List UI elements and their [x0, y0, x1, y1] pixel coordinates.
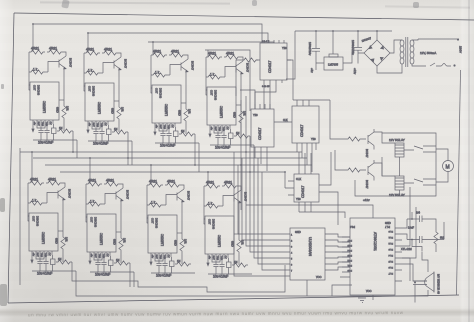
svg-text:CLK: CLK [296, 177, 301, 181]
svg-text:CD4017: CD4017 [268, 60, 272, 73]
resistor R pull U10 [242, 58, 258, 62]
svg-text:2: 2 [291, 241, 293, 243]
555 block T4 [206, 52, 254, 150]
bridge rectifier 1N4007 [358, 31, 399, 73]
mcu right risers [402, 187, 416, 258]
svg-text:4: 4 [291, 253, 293, 255]
555 block B1 [28, 178, 76, 276]
svg-text:Y10: Y10 [296, 197, 301, 201]
svg-text:MY SENSOR 40: MY SENSOR 40 [437, 274, 441, 294]
mid bus B [33, 157, 307, 159]
wire entry B4 [207, 172, 209, 186]
svg-text:GND: GND [385, 221, 391, 225]
svg-text:Y10: Y10 [311, 137, 316, 141]
svg-text:P1.6: P1.6 [388, 266, 393, 268]
wire entry B3 [150, 165, 152, 185]
bottom stair wire [72, 262, 285, 292]
MCU U16 AT89C2051 [349, 218, 395, 295]
U15 right pins [325, 234, 332, 270]
svg-text:1000uF/25v: 1000uF/25v [351, 40, 355, 55]
svg-text:3: 3 [291, 247, 293, 249]
wire entry B2 [89, 158, 91, 184]
svg-text:P1.3: P1.3 [388, 248, 393, 250]
svg-text:12V RELAY: 12V RELAY [389, 193, 405, 197]
555 block T3 [151, 50, 199, 148]
rail left drop [286, 31, 295, 79]
wire entry T4 [207, 50, 209, 57]
svg-text:P3.3: P3.3 [347, 254, 352, 256]
svg-text:Y10: Y10 [253, 113, 258, 117]
555 block B2 [86, 179, 134, 277]
relay RL2 12V [374, 163, 436, 197]
transformer T1 [398, 37, 436, 73]
border top [14, 13, 474, 20]
svg-text:ULN2003AN: ULN2003AN [308, 237, 312, 257]
resistor R30 [429, 219, 445, 252]
speaker SP1 [413, 272, 441, 303]
svg-text:LM7805: LM7805 [328, 63, 339, 67]
scan artifacts [1, 84, 4, 89]
svg-text:100uF/16v: 100uF/16v [308, 42, 312, 56]
svg-text:8 13 15: 8 13 15 [262, 86, 270, 88]
svg-text:+12v: +12v [353, 68, 357, 75]
capacitor C20 [407, 212, 429, 223]
svg-text:AT89C2051: AT89C2051 [373, 232, 377, 251]
svg-text:CD4017: CD4017 [258, 127, 262, 140]
bus loop 3 [148, 42, 274, 43]
svg-text:CD4017: CD4017 [301, 185, 305, 198]
svg-text:10uF: 10uF [408, 226, 414, 230]
svg-text:P1.1: P1.1 [388, 236, 393, 238]
svg-text:VCC: VCC [366, 289, 372, 293]
counter IC U11 CD4017 [251, 104, 292, 171]
transistor Q20 BC547 [365, 129, 374, 158]
wire entry T2 [87, 33, 89, 53]
svg-text:CD4017: CD4017 [300, 124, 304, 137]
svg-text:P1.2: P1.2 [388, 242, 393, 244]
svg-text:1N4007: 1N4007 [361, 36, 372, 43]
svg-text:+5v: +5v [310, 68, 314, 73]
U15-U16 link wires [332, 234, 350, 270]
mid bus D [60, 172, 285, 188]
wire T3 drop [195, 134, 199, 172]
mains wiring 230V [412, 38, 463, 66]
svg-text:Y10: Y10 [282, 46, 287, 50]
svg-text:XTL-12M: XTL-12M [401, 247, 412, 251]
wire U10 left [236, 60, 242, 96]
left vertical trunk [19, 148, 21, 285]
wire U11 feed [240, 90, 255, 109]
wire entry T3 [152, 42, 154, 55]
svg-text:1: 1 [291, 235, 293, 237]
wire entry B1 [31, 152, 33, 183]
wire T1 drop [73, 131, 77, 158]
driver resistor R20 [346, 137, 362, 141]
border left [8, 13, 14, 303]
svg-text:P1.4: P1.4 [388, 254, 393, 256]
wire T4 drop [250, 136, 254, 172]
svg-text:P1.0: P1.0 [388, 230, 393, 232]
capacitor C10 100uF [308, 31, 320, 73]
U15 left pins [283, 234, 290, 276]
svg-text:12V RELAY: 12V RELAY [389, 138, 405, 142]
border bottom [8, 295, 459, 303]
555 block B3 [147, 180, 195, 278]
counter IC U12 CD4017 [283, 100, 319, 172]
svg-text:P3.0: P3.0 [347, 269, 352, 271]
svg-text:P1.5: P1.5 [388, 260, 393, 262]
fan-in wires from oscillators [234, 152, 283, 276]
driver resistor R21 [346, 168, 362, 172]
relay frame [355, 133, 436, 196]
svg-text:5: 5 [291, 259, 293, 261]
capacitor C11 1000uF [351, 31, 362, 75]
border right [457, 70, 461, 295]
U16 right pins + labels [395, 228, 402, 281]
svg-text:12V, 500mA: 12V, 500mA [420, 51, 436, 55]
capacitor C21 [407, 226, 429, 244]
relay RL1 12V [374, 132, 436, 157]
trunk vertical a [240, 100, 242, 210]
bus loop 2 [88, 33, 268, 43]
U16 top supply [246, 205, 373, 218]
svg-text:P3.7: P3.7 [347, 239, 352, 241]
wire entry T1 [32, 24, 34, 52]
svg-text:P1.7: P1.7 [384, 225, 390, 228]
counter IC U13 CD4017 [285, 152, 345, 225]
transistor Q21 BC547 [365, 160, 374, 189]
svg-text:VCC: VCC [316, 275, 322, 279]
speaker feed wires [402, 258, 427, 281]
555 block T1 [29, 47, 77, 145]
svg-text:GND: GND [295, 230, 301, 234]
mid bus A [20, 151, 302, 153]
wire T2 drop [128, 132, 132, 165]
U16 left pins + labels [340, 237, 350, 277]
svg-text:P3.5: P3.5 [347, 244, 352, 246]
svg-text:P3.4: P3.4 [347, 249, 352, 251]
bus loop 4 [205, 50, 250, 111]
svg-text:P3.0: P3.0 [349, 225, 355, 228]
svg-text:M: M [446, 165, 450, 171]
+5V rail [295, 30, 392, 32]
crystal feed wires [402, 212, 422, 252]
svg-text:230V: 230V [459, 46, 463, 53]
svg-text:CLK: CLK [283, 119, 288, 122]
555 block B4 [204, 181, 252, 279]
wire to R20 [330, 100, 366, 139]
svg-text:P1.7: P1.7 [388, 272, 393, 274]
counter IC U10 CD4017 [256, 40, 291, 88]
svg-text:7: 7 [291, 271, 293, 273]
bottom gnd run [332, 285, 373, 300]
trunk vertical b [245, 96, 247, 152]
svg-text:3 2 4 7: 3 2 4 7 [262, 41, 269, 43]
bus loop 1 [33, 24, 262, 43]
svg-text:6: 6 [291, 265, 293, 267]
svg-text:BC547: BC547 [365, 180, 369, 189]
wire U10-U11 links [255, 84, 276, 109]
svg-text:+12v: +12v [363, 198, 370, 202]
gnd symbol [358, 298, 366, 303]
svg-text:BC547: BC547 [365, 149, 369, 158]
mid bus C [45, 164, 312, 166]
wire U15 ground drop [306, 280, 308, 296]
bottom long return [76, 263, 428, 296]
motor M [436, 149, 454, 182]
driver IC U15 ULN2003A [290, 228, 325, 280]
svg-text:P3.2: P3.2 [347, 259, 352, 261]
wire U12 top bus [287, 60, 330, 100]
svg-text:P3.1: P3.1 [347, 264, 352, 266]
555 block T2 [84, 48, 132, 146]
regulator U14 LM7805 [316, 31, 352, 70]
svg-text:104: 104 [416, 212, 421, 215]
wire to R21 [335, 150, 366, 170]
